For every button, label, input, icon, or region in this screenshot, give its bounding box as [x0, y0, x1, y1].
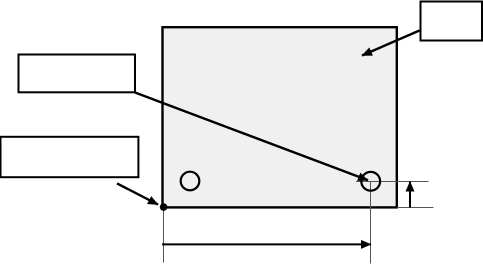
corner dot	[160, 203, 168, 211]
callout box lower left	[1, 137, 139, 177]
extension line vertical right (below right circle)	[370, 182, 372, 264]
right vertical dimension arrow	[409, 182, 411, 208]
leader arrow from lower-left box to corner dot	[117, 183, 158, 204]
right circle	[361, 172, 380, 191]
extension line horizontal at rectangle bottom level	[397, 207, 434, 209]
extension line horizontal at circle level	[356, 181, 429, 183]
left circle	[181, 172, 200, 191]
callout box middle left	[19, 55, 136, 93]
callout box top right	[421, 2, 483, 41]
leader arrow from middle-left box to right circle	[135, 93, 368, 181]
bottom dimension arrow	[162, 243, 371, 245]
extension line vertical left (below rectangle corner)	[163, 209, 165, 263]
leader arrow from top-right box	[362, 31, 420, 56]
main gray rectangle	[163, 27, 397, 207]
